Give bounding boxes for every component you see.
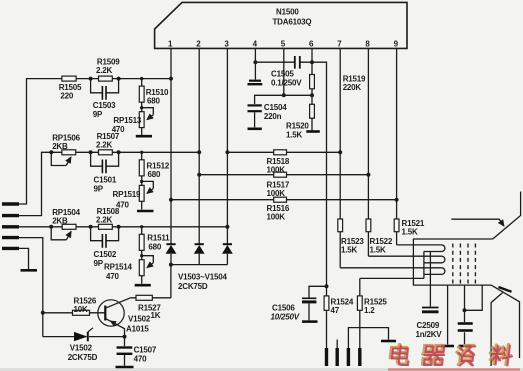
wire pin4 stub down [254, 49, 256, 80]
node dot above RP1513 [140, 106, 143, 109]
wire stub1 up to channel1 [18, 79, 62, 204]
ground under capacitor [459, 345, 472, 348]
resistor R1523 [338, 219, 343, 232]
capacitor under focus loop [464, 310, 466, 344]
potentiometer RP1514 [139, 260, 144, 276]
svg-text:C1501: C1501 [94, 175, 117, 184]
node dot right of R1508 [117, 225, 121, 229]
capacitor C2509 [422, 307, 439, 309]
svg-text:10K: 10K [74, 305, 88, 314]
svg-text:470: 470 [134, 354, 147, 363]
bottom stub 1 [325, 348, 328, 366]
node dot channel3 pin3 [225, 225, 229, 229]
node dot R1516 at pin1 [169, 198, 173, 202]
input stub 5 [2, 247, 19, 250]
ground below RP1519 [137, 210, 154, 213]
CRT inner screen line with arrow [451, 219, 504, 226]
resistor R1509 [99, 76, 113, 81]
input stub 2 [2, 214, 19, 217]
svg-text:1.5K: 1.5K [286, 130, 303, 139]
wire R1517 line pin2 to pin8 [199, 174, 368, 176]
capacitor C1505 [255, 61, 312, 63]
node dot R1517 at pin8 [366, 173, 370, 177]
potentiometer RP1504 [62, 224, 76, 229]
svg-text:C1507: C1507 [134, 346, 157, 355]
potentiometer RP1506 [62, 150, 76, 155]
anode tick [499, 287, 512, 292]
svg-text:C1502: C1502 [94, 250, 117, 259]
wire pin6 vertical through R1519 R1520 [311, 49, 313, 131]
svg-text:RP1506: RP1506 [52, 134, 80, 143]
svg-text:2KB: 2KB [52, 142, 68, 151]
bottom stub 4 [358, 348, 361, 366]
node dot pin5 [282, 93, 286, 97]
svg-text:220K: 220K [343, 83, 362, 92]
resistor R1522 [366, 219, 371, 232]
svg-text:1K: 1K [151, 311, 161, 320]
CRT bottom flare [491, 285, 519, 358]
node dot right of R1507 [117, 150, 121, 154]
capacitor C1503 loop [91, 79, 119, 93]
wire R1516 line pin1 to pin9 [171, 199, 397, 201]
svg-text:9P: 9P [94, 259, 104, 268]
resistor R1521 [394, 219, 399, 232]
capacitor C1507 [124, 337, 126, 366]
svg-text:2.2K: 2.2K [96, 141, 113, 150]
svg-text:R1511: R1511 [147, 234, 170, 243]
ground below R1520 [306, 130, 320, 133]
svg-text:C1504: C1504 [264, 103, 287, 112]
svg-text:C1506: C1506 [272, 304, 295, 313]
wire stub2 up to channel2 [18, 152, 51, 215]
diode D2 on pin2 line [195, 243, 204, 245]
svg-text:C1503: C1503 [93, 101, 116, 110]
wire channel2 [51, 151, 199, 153]
svg-text:2: 2 [196, 39, 201, 48]
svg-text:2CK75D: 2CK75D [178, 282, 208, 291]
svg-text:C2509: C2509 [417, 321, 440, 330]
svg-text:A1015: A1015 [126, 325, 149, 334]
node dot bus / R1527 [169, 263, 173, 267]
svg-text:680: 680 [148, 242, 161, 251]
ground below stub5 [21, 269, 38, 272]
input stub 3 [2, 225, 19, 228]
wire R1521 to cathode1 [397, 244, 442, 246]
node dot R1518 at pin7 [338, 150, 342, 154]
capacitor C1504 [254, 112, 256, 127]
svg-text:9: 9 [394, 39, 399, 48]
grid dashed line 3 [467, 244, 469, 286]
ground under grid lead [441, 345, 454, 348]
svg-text:47: 47 [331, 306, 340, 315]
resistor R1519 [310, 75, 315, 89]
wire R1522 to cathode2 [368, 255, 441, 257]
svg-text:C1505: C1505 [271, 70, 294, 79]
input stub 4 [2, 236, 19, 239]
capacitor C1506 electrolytic [309, 286, 327, 320]
svg-text:R1525: R1525 [364, 298, 387, 307]
potentiometer RP1519 [139, 185, 144, 201]
svg-text:RP1519: RP1519 [113, 190, 141, 199]
diode V1502 2CK75D [43, 336, 125, 338]
diode D3 on pin3 line [223, 243, 232, 245]
CRT top flare [493, 192, 521, 240]
ground at pin4 [249, 80, 261, 82]
op-amp IC N1500 TDA6103Q [155, 2, 407, 48]
svg-text:2CK75D: 2CK75D [68, 353, 98, 362]
node dot right of R1509 [117, 77, 121, 81]
wire pin1 vertical down to diode V1503 [170, 49, 172, 244]
CRT neck outline [413, 239, 492, 285]
capacitor C1501 loop [91, 152, 119, 166]
svg-text:R1521: R1521 [402, 219, 425, 228]
node dot C1506 tap [325, 284, 329, 288]
bottom stub 2 (unconnected) [336, 340, 338, 349]
svg-text:470: 470 [106, 272, 119, 281]
diode D1 on pin1 line [166, 243, 175, 245]
svg-text:1: 1 [168, 39, 173, 48]
node dot channel2 pin2 [197, 150, 201, 154]
heater rail left [423, 252, 425, 279]
svg-text:V1502: V1502 [128, 315, 151, 324]
svg-text:N1500: N1500 [276, 8, 299, 17]
resistor R1512 [141, 152, 143, 185]
wire R1527 up to diode bus [170, 265, 172, 298]
svg-text:100K: 100K [267, 213, 286, 222]
watermark 电器资料 drawn as paths [390, 345, 512, 365]
svg-text:1n/2KV: 1n/2KV [416, 330, 443, 339]
resistor R1510 [141, 79, 143, 112]
grid dashed line 1 [452, 244, 454, 286]
grid dashed line 2 [459, 244, 461, 286]
svg-text:RP1514: RP1514 [104, 263, 132, 272]
node dot RP1506 wiper tap [49, 150, 53, 154]
svg-text:TDA6103Q: TDA6103Q [273, 17, 312, 26]
wire pin5 down and left to C1504 [255, 49, 284, 104]
wire R1518 line pin3 to pin7 [227, 151, 340, 153]
wire pin8 vertical down to R1522 [367, 49, 369, 256]
resistor R1527 [131, 297, 171, 299]
node dot above RP1519 [140, 180, 143, 183]
node dot at R1511 tap [140, 225, 143, 228]
svg-text:R1505: R1505 [59, 83, 82, 92]
wire base to R1526 [43, 312, 105, 314]
svg-text:10/250V: 10/250V [271, 313, 300, 322]
svg-text:2.2K: 2.2K [96, 216, 113, 225]
resistor R1508 [99, 224, 113, 229]
svg-text:R1524: R1524 [331, 298, 354, 307]
resistor R1505 [62, 76, 76, 81]
svg-text:1.5K: 1.5K [370, 246, 387, 255]
node dot pin4 [253, 60, 257, 64]
cathode cup 2 [424, 256, 445, 263]
resistor R1526 [73, 310, 90, 315]
node dot left of R1509 [89, 77, 93, 81]
wire pin5-pin6 link [284, 94, 312, 96]
resistor R1516 [274, 197, 287, 202]
cathode cup 1 [424, 245, 445, 252]
svg-text:6: 6 [309, 39, 314, 48]
svg-text:9P: 9P [93, 110, 103, 119]
node dot focus loop [463, 308, 467, 312]
svg-text:220n: 220n [264, 112, 282, 121]
grid lead to ground [447, 285, 449, 344]
ground right of stub3 [381, 340, 396, 343]
node dot RP1504 wiper tap [49, 225, 53, 229]
svg-text:5: 5 [281, 39, 286, 48]
svg-text:V1503~V1504: V1503~V1504 [178, 272, 227, 281]
wire RP1514 to ground [141, 276, 143, 284]
wire pin3 vertical down to diode [226, 49, 228, 244]
svg-text:3: 3 [224, 39, 229, 48]
resistor R1520 [310, 104, 315, 118]
svg-text:0.1/250V: 0.1/250V [271, 78, 302, 87]
node dot R1516 at pin9 [395, 198, 399, 202]
node dot R1518 at pin3 [225, 150, 229, 154]
svg-text:8: 8 [365, 39, 370, 48]
svg-text:RP1504: RP1504 [52, 208, 80, 217]
wire stub3 right into channel3 [18, 226, 51, 228]
resistor R1525 [359, 278, 361, 349]
svg-text:1.2: 1.2 [364, 306, 375, 315]
wire pin7 vertical down to R1523 [339, 49, 341, 268]
resistor R1524 [324, 296, 329, 310]
potentiometer RP1513 [139, 112, 144, 128]
node dot base-line tap [41, 311, 45, 315]
bottom edge gray band [0, 368, 523, 371]
node dot left of R1508 [89, 225, 93, 229]
node dot above RP1514 [140, 254, 143, 257]
wire pin6 jog right and down [312, 62, 327, 296]
svg-text:7: 7 [337, 39, 342, 48]
wire R1523 to cathode3 [340, 267, 441, 269]
svg-text:2KB: 2KB [52, 217, 68, 226]
wire stub5 down to ground [18, 248, 29, 269]
cathode cup 3 [424, 268, 445, 275]
svg-text:R1519: R1519 [343, 74, 366, 83]
node dot emitter / C1507 [123, 335, 127, 339]
node dot pin6 top [310, 60, 314, 64]
node dot at R1510 tap [140, 77, 143, 80]
svg-text:680: 680 [148, 170, 161, 179]
svg-text:220: 220 [60, 92, 73, 101]
char 资 [455, 346, 473, 365]
svg-text:680: 680 [147, 96, 160, 105]
svg-text:V1502: V1502 [70, 344, 93, 353]
wire channel3 [51, 226, 227, 228]
svg-text:100K: 100K [267, 189, 286, 198]
node dot at R1512 tap [140, 151, 143, 154]
node dot pin6 mid [310, 93, 314, 97]
svg-text:R1512: R1512 [147, 162, 170, 171]
wire diode bus [171, 264, 228, 266]
wire heater line [360, 277, 424, 279]
svg-text:R1520: R1520 [286, 122, 309, 131]
capacitor C1502 loop [91, 227, 119, 241]
resistor R1518 [274, 150, 287, 155]
anode lead [491, 293, 503, 366]
focus U-loop [465, 285, 483, 310]
wire channel1 [76, 78, 171, 80]
wire pin2 vertical down to diode [198, 49, 200, 244]
svg-text:1.5K: 1.5K [402, 228, 419, 237]
bottom stub 3 with raised wire to ground [348, 328, 388, 348]
transistor V1502 A1015 [98, 300, 124, 326]
char 电 [390, 345, 409, 365]
resistor R1517 [274, 172, 287, 177]
heater rail right down to C2509 [429, 252, 431, 307]
wire stub4 down to transistor base line [18, 238, 43, 337]
wire RP1513 to ground [141, 128, 143, 135]
char 器 [422, 346, 444, 365]
wire RP1519 to ground [141, 201, 143, 209]
node dot R1517 at pin2 [197, 173, 201, 177]
grid dashed line 4 [474, 244, 476, 286]
svg-text:2.2K: 2.2K [96, 66, 113, 75]
wire pin9 vertical down to R1521 [396, 49, 398, 245]
svg-text:RP1513: RP1513 [113, 116, 141, 125]
ground below RP1513 [136, 135, 152, 138]
resistor R1507 [99, 150, 113, 155]
resistor R1511 [141, 227, 143, 260]
svg-text:4: 4 [253, 39, 258, 48]
input stub 1 [2, 202, 19, 205]
svg-text:9P: 9P [94, 184, 104, 193]
node dot left of R1507 [89, 150, 93, 154]
ground below RP1514 [135, 284, 151, 287]
node dot channel1 pin1 [169, 77, 173, 81]
svg-text:1.5K: 1.5K [341, 246, 358, 255]
char 料 [489, 345, 512, 365]
